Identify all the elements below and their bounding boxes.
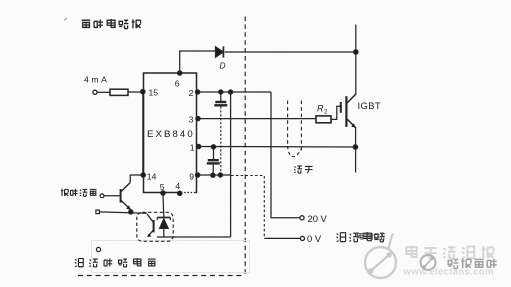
node collector junction (354, 50, 358, 54)
label twisted wire (294, 166, 312, 173)
watermark big brand text (406, 246, 493, 259)
terminal 20V (300, 216, 304, 220)
transistor IGBT (340, 102, 342, 113)
svg-text:D: D (220, 61, 226, 71)
svg-text:15: 15 (149, 88, 159, 98)
opto transistor (153, 220, 155, 232)
wire diode to collector node (225, 51, 356, 53)
wire input to R1 (97, 91, 110, 93)
svg-text:2: 2 (189, 88, 194, 98)
pin 9 (195, 173, 199, 177)
collector vertical (355, 25, 357, 95)
wire to 0V terminal (264, 237, 300, 239)
emitter vertical (355, 127, 357, 173)
wire pin6 up and to diode (180, 51, 216, 73)
svg-text:20 V: 20 V (308, 213, 328, 224)
twisted pair loop (288, 146, 302, 157)
wire pin3 to gate resistor (198, 118, 316, 120)
junction C2 top (211, 145, 215, 149)
capacitor C2 (213, 147, 215, 159)
wire pin1 emitter return (199, 146, 356, 149)
dashed boundary corner mark top-left (64, 18, 67, 21)
resistor Rg (316, 116, 331, 123)
terminal emitter input square (96, 210, 100, 214)
wire base (104, 195, 121, 197)
pin 14 (141, 173, 145, 177)
watermark small logo (421, 255, 436, 270)
wire Rg to IGBT gate (331, 106, 340, 119)
svg-text:9: 9 (189, 171, 194, 181)
wire Q1 collector to pin14 (130, 175, 143, 183)
wire zener to rail (163, 228, 165, 237)
watermark small dark text (357, 233, 385, 240)
pin 5 (161, 191, 165, 195)
pin 4 (178, 191, 182, 195)
pin 2 (195, 90, 199, 94)
dashed border bottom (78, 275, 245, 277)
wire pin9 dashed continuation (231, 175, 264, 177)
svg-text:EXB840: EXB840 (147, 129, 195, 140)
svg-text:1: 1 (190, 143, 195, 153)
input terminal (4mA) (93, 90, 97, 94)
zener diode opto LED (157, 217, 170, 219)
label drive signal (61, 189, 97, 197)
junction Q1 emitter (129, 210, 133, 214)
junction C1 top (219, 90, 223, 94)
resistor R1 (110, 89, 128, 95)
svg-text:R: R (317, 104, 324, 114)
wire 20V supply drop (271, 92, 300, 218)
label: gate-control-board title (door control circuit board) (82, 19, 141, 29)
pin 1 (196, 144, 200, 148)
wire fault rail bottom (157, 236, 231, 238)
terminal 0V (300, 236, 304, 240)
junction C1 bottom (218, 173, 222, 177)
svg-text:0 V: 0 V (307, 233, 322, 244)
svg-text:5: 5 (160, 182, 165, 192)
label isolated supply (336, 232, 384, 242)
terminal drive base (100, 194, 104, 198)
U1 left edge wire doubling (142, 92, 144, 175)
svg-text:IGBT: IGBT (358, 100, 381, 111)
svg-text:4: 4 (175, 181, 180, 191)
wire fault pull-up vertical (230, 92, 232, 237)
twisted pair dashed line a (287, 101, 289, 149)
wire pin2 rail (198, 91, 271, 93)
twisted pair dashed line b (300, 101, 302, 151)
terminal overcurrent output (96, 247, 100, 251)
pin 6 (178, 71, 182, 75)
wire R1 to pin15 (128, 91, 143, 93)
wire pin9 ground rail (198, 174, 231, 176)
label overcurrent protection output (75, 258, 156, 267)
watermark logo big circle (365, 234, 396, 279)
diode D (216, 47, 224, 57)
wire pin5 down to zener (162, 193, 165, 217)
dashed border right vertical (244, 17, 246, 276)
svg-text:6: 6 (175, 79, 180, 89)
faint table box around overcurrent label (92, 241, 250, 273)
svg-text:4mA: 4mA (84, 75, 109, 85)
pin 15 (141, 90, 145, 94)
op-amp U1 hybrid driver EXB840 (144, 73, 197, 193)
opto-coupler U2 dashed box (137, 212, 173, 241)
capacitor C1 (220, 92, 222, 101)
transistor Q1 (120, 189, 122, 203)
svg-text:www.elecfans.com: www.elecfans.com (403, 267, 494, 278)
svg-text:3: 3 (189, 114, 194, 124)
junction C2 bottom (211, 173, 215, 177)
wire 0V drop (263, 176, 265, 238)
wire emitter rail to opto (99, 212, 147, 213)
watermark company text (448, 258, 497, 268)
junction fault rail top (229, 90, 233, 94)
svg-text:14: 14 (147, 172, 157, 182)
pin 3 (196, 116, 200, 120)
U1 bottom edge dotted segment near pin 4 (181, 191, 196, 193)
node emitter junction (353, 145, 357, 149)
